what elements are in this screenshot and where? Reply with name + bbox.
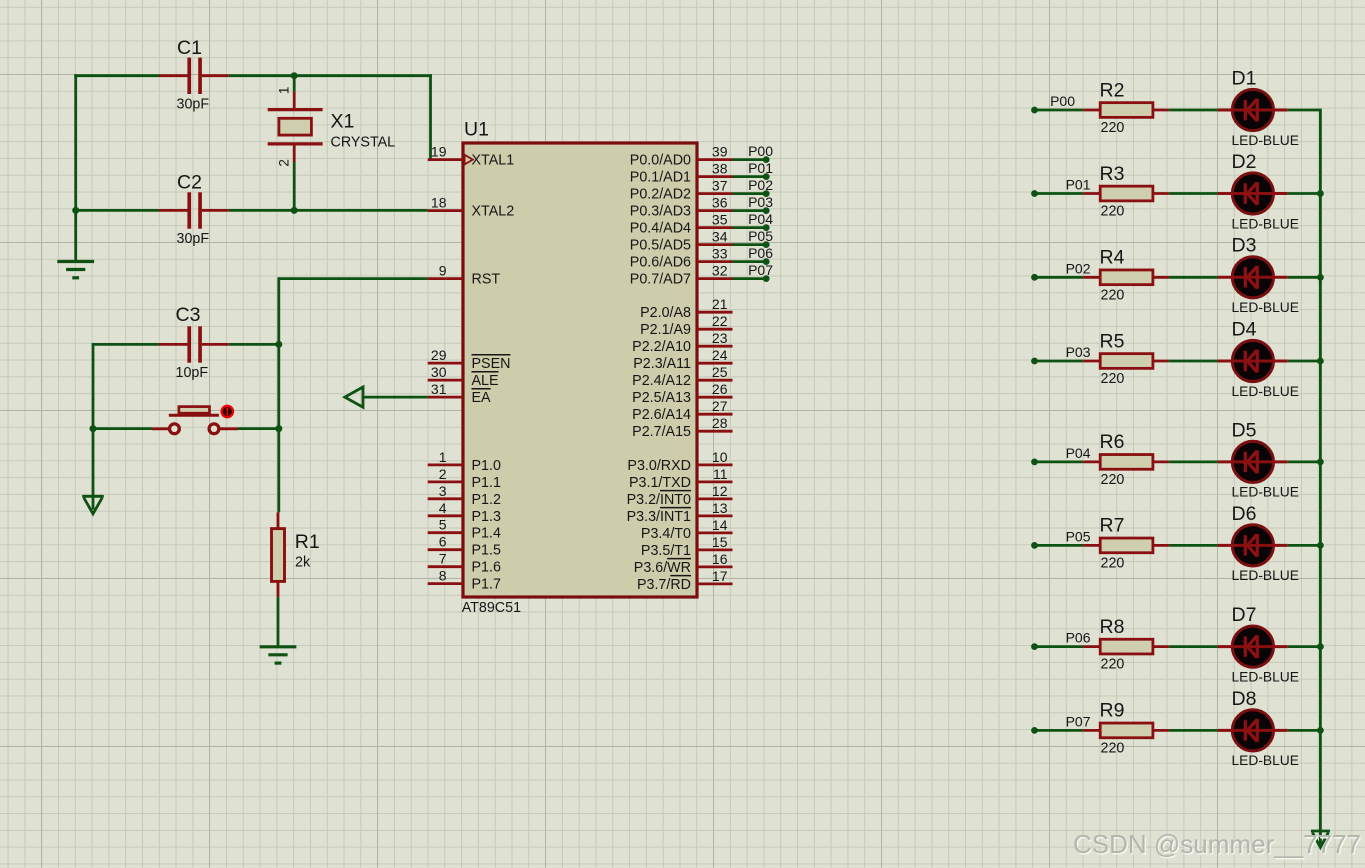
node junction bus row 4 — [1317, 358, 1324, 365]
svg-text:220: 220 — [1101, 740, 1125, 756]
wire D3 to bus — [1288, 276, 1321, 279]
node junction bus row 2 — [1317, 190, 1324, 197]
svg-text:17: 17 — [712, 568, 728, 584]
wire R2 to D1 — [1169, 109, 1218, 112]
svg-text:13: 13 — [712, 500, 728, 516]
svg-text:39: 39 — [712, 144, 728, 160]
svg-text:4: 4 — [439, 500, 447, 516]
capacitor C1 — [159, 58, 229, 94]
svg-text:LED-BLUE: LED-BLUE — [1232, 300, 1299, 315]
pin 13 (P3.3/INT1) — [627, 500, 733, 525]
pin 24 (P2.3/A11) — [633, 347, 732, 372]
svg-text:32: 32 — [712, 263, 728, 279]
wire net P06 from pin 33 — [733, 260, 767, 263]
svg-text:16: 16 — [712, 551, 728, 567]
node net P05 (LED side) — [1031, 542, 1038, 549]
ground (reset) — [260, 647, 297, 663]
svg-text:1: 1 — [439, 449, 447, 465]
svg-text:PSEN: PSEN — [472, 356, 511, 372]
node junction bus row 3 — [1317, 274, 1324, 281]
node junction bus row 8 — [1317, 727, 1324, 734]
svg-text:38: 38 — [712, 161, 728, 177]
svg-text:37: 37 — [712, 178, 728, 194]
wire left branch down to arrow — [92, 429, 95, 510]
wire P00 to R2 — [1035, 109, 1084, 112]
wire D6 to bus — [1288, 544, 1321, 547]
svg-text:P00: P00 — [1050, 93, 1075, 109]
svg-text:2: 2 — [439, 466, 447, 482]
svg-text:31: 31 — [431, 381, 447, 397]
svg-text:P01: P01 — [1066, 177, 1091, 193]
svg-text:R7: R7 — [1100, 515, 1125, 537]
pin 19 (XTAL1) — [428, 144, 514, 169]
resistor R5 — [1083, 354, 1169, 369]
svg-text:LED-BLUE: LED-BLUE — [1232, 485, 1299, 500]
svg-text:29: 29 — [431, 347, 447, 363]
svg-text:220: 220 — [1101, 555, 1125, 571]
svg-text:U1: U1 — [464, 119, 489, 141]
wire R7 to D6 — [1169, 544, 1218, 547]
pin 14 (P3.4/T0) — [641, 517, 733, 542]
wire top to XTAL1 pin — [294, 74, 432, 159]
svg-text:P0.6/AD6: P0.6/AD6 — [630, 255, 691, 271]
button interactive marker (red) — [222, 406, 233, 417]
svg-text:P2.3/A11: P2.3/A11 — [633, 356, 691, 372]
pin 34 (P0.5/AD5) — [630, 229, 733, 254]
svg-text:P1.2: P1.2 — [472, 492, 501, 508]
node terminal P02 — [763, 190, 770, 197]
wire D2 to bus — [1288, 192, 1321, 195]
svg-text:P06: P06 — [748, 245, 773, 261]
pin 18 (XTAL2) — [428, 195, 514, 220]
wire R8 to D7 — [1169, 645, 1218, 648]
svg-text:P1.7: P1.7 — [472, 577, 501, 593]
svg-text:XTAL2: XTAL2 — [472, 204, 515, 220]
svg-text:X1: X1 — [331, 111, 355, 133]
wire P02 to R4 — [1035, 276, 1084, 279]
wire R5 to D4 — [1169, 360, 1218, 363]
wire P05 to R7 — [1035, 544, 1084, 547]
node junction C2 row / left vertical — [72, 207, 79, 214]
svg-text:P2.1/A9: P2.1/A9 — [640, 322, 691, 338]
svg-text:24: 24 — [712, 347, 728, 363]
svg-text:P02: P02 — [1066, 260, 1091, 276]
svg-text:D6: D6 — [1232, 503, 1257, 525]
wire D4 to bus — [1288, 360, 1321, 363]
pin 33 (P0.6/AD6) — [630, 246, 733, 271]
wire R3 to D2 — [1169, 192, 1218, 195]
svg-text:18: 18 — [431, 195, 447, 211]
svg-text:R4: R4 — [1100, 247, 1125, 269]
pin 27 (P2.6/A14) — [632, 398, 732, 423]
resistor R3 — [1083, 186, 1169, 201]
wire C1 row top-left — [74, 74, 159, 212]
svg-text:LED-BLUE: LED-BLUE — [1232, 384, 1299, 399]
svg-text:P0.0/AD0: P0.0/AD0 — [630, 153, 691, 169]
wire D5 to bus — [1288, 460, 1321, 463]
svg-text:P3.2/INT0: P3.2/INT0 — [627, 492, 691, 508]
node net P01 (LED side) — [1031, 190, 1038, 197]
svg-text:220: 220 — [1101, 657, 1125, 673]
ground (oscillator) — [57, 262, 94, 278]
svg-text:P01: P01 — [748, 160, 773, 176]
svg-text:8: 8 — [439, 568, 447, 584]
svg-text:19: 19 — [431, 144, 447, 160]
svg-text:C2: C2 — [177, 172, 202, 194]
svg-text:RST: RST — [472, 272, 501, 288]
LED D4 — [1218, 340, 1288, 381]
svg-text:10: 10 — [712, 449, 728, 465]
svg-text:CSDN @summer__7777: CSDN @summer__7777 — [1073, 829, 1361, 859]
svg-text:220: 220 — [1101, 287, 1125, 303]
svg-text:R1: R1 — [295, 531, 320, 553]
svg-text:P04: P04 — [748, 211, 773, 227]
svg-text:P05: P05 — [1066, 528, 1091, 544]
svg-text:34: 34 — [712, 229, 728, 245]
svg-text:P2.6/A14: P2.6/A14 — [632, 407, 691, 423]
wire C2 row to XTAL2 pin — [229, 209, 428, 212]
pin 28 (P2.7/A15) — [632, 415, 732, 440]
pin 10 (P3.0/RXD) — [627, 449, 732, 474]
svg-text:220: 220 — [1101, 371, 1125, 387]
node net P06 (LED side) — [1031, 643, 1038, 650]
node junction bus row 7 — [1317, 643, 1324, 650]
svg-text:220: 220 — [1101, 472, 1125, 488]
resistor R6 — [1083, 455, 1169, 470]
pin 9 (RST) — [428, 263, 501, 288]
wire R4 to D3 — [1169, 276, 1218, 279]
svg-text:15: 15 — [712, 534, 728, 550]
pin 17 (P3.7/RD) — [637, 568, 733, 593]
svg-text:P1.3: P1.3 — [472, 509, 501, 525]
svg-text:C3: C3 — [176, 304, 201, 326]
wire button row left — [93, 427, 152, 430]
wire C3 to RST vertical — [229, 343, 279, 346]
resistor R9 — [1083, 723, 1169, 738]
svg-text:R9: R9 — [1100, 700, 1125, 722]
svg-text:P07: P07 — [748, 262, 773, 278]
resistor R2 — [1083, 103, 1169, 118]
XTAL1 clock input symbol — [465, 155, 473, 165]
svg-text:2: 2 — [276, 159, 291, 167]
pin 22 (P2.1/A9) — [640, 313, 732, 338]
svg-text:1: 1 — [276, 87, 291, 95]
svg-text:3: 3 — [439, 483, 447, 499]
svg-text:P0.7/AD7: P0.7/AD7 — [630, 272, 691, 288]
svg-text:22: 22 — [712, 313, 728, 329]
svg-text:D4: D4 — [1232, 318, 1257, 340]
svg-text:220: 220 — [1101, 204, 1125, 220]
svg-text:P2.2/A10: P2.2/A10 — [632, 339, 691, 355]
wire P04 to R6 — [1035, 460, 1084, 463]
pin 35 (P0.4/AD4) — [630, 212, 733, 237]
svg-text:30pF: 30pF — [177, 97, 210, 113]
svg-text:P0.5/AD5: P0.5/AD5 — [630, 238, 691, 254]
LED D7 — [1218, 626, 1288, 667]
svg-text:D7: D7 — [1232, 604, 1257, 626]
svg-text:23: 23 — [712, 330, 728, 346]
svg-text:CRYSTAL: CRYSTAL — [331, 135, 396, 151]
node terminal P00 — [763, 156, 770, 163]
svg-text:P2.4/A12: P2.4/A12 — [632, 373, 691, 389]
svg-text:P1.4: P1.4 — [472, 526, 501, 542]
svg-text:P3.6/WR: P3.6/WR — [634, 560, 691, 576]
svg-text:10pF: 10pF — [176, 365, 209, 381]
wire cathode bus vertical — [1319, 109, 1322, 844]
svg-text:LED-BLUE: LED-BLUE — [1232, 753, 1299, 768]
node net P00 (LED side) — [1031, 107, 1038, 114]
svg-text:220: 220 — [1101, 120, 1125, 136]
pin 21 (P2.0/A8) — [640, 296, 732, 321]
svg-text:D5: D5 — [1232, 419, 1257, 441]
svg-text:12: 12 — [712, 483, 728, 499]
pin 29 (PSEN) — [428, 347, 511, 372]
pin 1 (P1.0) — [428, 449, 501, 474]
pin 3 (P1.2) — [428, 483, 501, 508]
LED D3 — [1218, 257, 1288, 298]
node junction button right / RST vertical — [275, 425, 282, 432]
svg-text:AT89C51: AT89C51 — [462, 600, 521, 616]
pin 11 (P3.1/TXD) — [629, 466, 732, 491]
pin 2 (P1.1) — [428, 466, 501, 491]
resistor R8 — [1083, 639, 1169, 654]
wire net P07 from pin 32 — [733, 277, 767, 280]
svg-text:P3.4/T0: P3.4/T0 — [641, 526, 691, 542]
wire D7 to bus — [1288, 645, 1321, 648]
pin 12 (P3.2/INT0) — [627, 483, 733, 508]
svg-text:25: 25 — [712, 364, 728, 380]
svg-text:30pF: 30pF — [177, 231, 210, 247]
svg-text:LED-BLUE: LED-BLUE — [1232, 568, 1299, 583]
svg-text:P07: P07 — [1066, 713, 1091, 729]
svg-text:P00: P00 — [748, 143, 773, 159]
svg-text:21: 21 — [712, 296, 728, 312]
svg-text:P1.5: P1.5 — [472, 543, 501, 559]
LED D6 — [1218, 525, 1288, 566]
node junction bus row 5 — [1317, 459, 1324, 466]
LED D1 — [1218, 89, 1288, 130]
svg-text:P3.7/RD: P3.7/RD — [637, 577, 691, 593]
svg-text:R5: R5 — [1100, 330, 1125, 352]
pin 5 (P1.4) — [428, 517, 501, 542]
svg-text:P3.5/T1: P3.5/T1 — [641, 543, 691, 559]
svg-text:11: 11 — [713, 466, 728, 482]
LED D5 — [1218, 441, 1288, 482]
pin 7 (P1.6) — [428, 551, 501, 576]
node net P03 (LED side) — [1031, 358, 1038, 365]
svg-text:P05: P05 — [748, 228, 773, 244]
wire P03 to R5 — [1035, 360, 1084, 363]
node terminal P07 — [763, 275, 770, 282]
svg-text:5: 5 — [439, 517, 447, 533]
resistor R4 — [1083, 270, 1169, 285]
wire net P05 from pin 34 — [733, 243, 767, 246]
svg-text:P2.5/A13: P2.5/A13 — [632, 390, 691, 406]
svg-text:P03: P03 — [1066, 344, 1091, 360]
resistor R1 — [272, 512, 285, 597]
svg-text:28: 28 — [712, 415, 728, 431]
svg-text:D1: D1 — [1232, 67, 1257, 89]
svg-text:P1.6: P1.6 — [472, 560, 501, 576]
LED D8 — [1218, 710, 1288, 751]
pin 36 (P0.3/AD3) — [630, 195, 733, 220]
svg-text:33: 33 — [712, 246, 728, 262]
wire RST vertical mid — [277, 344, 280, 512]
svg-text:D2: D2 — [1232, 151, 1257, 173]
node terminal P05 — [763, 241, 770, 248]
svg-text:P04: P04 — [1066, 445, 1091, 461]
resistor R7 — [1083, 538, 1169, 553]
svg-text:P3.1/TXD: P3.1/TXD — [629, 475, 691, 491]
pin 16 (P3.6/WR) — [634, 551, 733, 576]
wire net P03 from pin 36 — [733, 209, 767, 212]
wire button right to RST vertical — [238, 427, 279, 430]
svg-text:C1: C1 — [177, 37, 202, 59]
wire RST pin to reset net — [279, 277, 428, 344]
svg-text:P0.1/AD1: P0.1/AD1 — [630, 170, 691, 186]
node junction crystal pin 2 / C2 row — [291, 207, 298, 214]
pin 23 (P2.2/A10) — [632, 330, 732, 355]
svg-text:26: 26 — [712, 381, 728, 397]
EA input arrow — [345, 387, 428, 407]
svg-text:P1.0: P1.0 — [472, 458, 501, 474]
pin 6 (P1.5) — [428, 534, 501, 559]
pin 15 (P3.5/T1) — [641, 534, 733, 559]
svg-text:6: 6 — [439, 534, 447, 550]
svg-text:35: 35 — [712, 212, 728, 228]
node terminal P01 — [763, 173, 770, 180]
wire net P00 from pin 39 — [733, 158, 767, 161]
svg-text:R8: R8 — [1100, 616, 1125, 638]
svg-text:D3: D3 — [1232, 235, 1257, 257]
pin 38 (P0.1/AD1) — [630, 161, 733, 186]
wire net P02 from pin 37 — [733, 192, 767, 195]
pin 25 (P2.4/A12) — [632, 364, 732, 389]
pin 4 (P1.3) — [428, 500, 501, 525]
node junction bus row 6 — [1317, 542, 1324, 549]
node terminal P06 — [763, 258, 770, 265]
wire left vertical to ground — [74, 210, 77, 261]
svg-text:P0.2/AD2: P0.2/AD2 — [630, 187, 691, 203]
crystal X1 — [268, 76, 323, 211]
svg-text:EA: EA — [472, 390, 492, 406]
node terminal P03 — [763, 207, 770, 214]
ground arrow (down, left) — [82, 496, 104, 514]
wire D1 to bus — [1288, 109, 1321, 112]
LED D2 — [1218, 173, 1288, 214]
svg-text:P03: P03 — [748, 194, 773, 210]
svg-text:27: 27 — [712, 398, 728, 414]
node net P07 (LED side) — [1031, 727, 1038, 734]
pin 30 (ALE) — [428, 364, 499, 389]
svg-text:7: 7 — [439, 551, 447, 567]
svg-text:P3.0/RXD: P3.0/RXD — [627, 458, 691, 474]
op-amp U1 AT89C51 microcontroller body — [463, 143, 697, 597]
svg-text:R2: R2 — [1100, 79, 1125, 101]
svg-text:30: 30 — [431, 364, 447, 380]
wire C1 to crystal node — [229, 74, 295, 77]
wire P01 to R3 — [1035, 192, 1084, 195]
pin 32 (P0.7/AD7) — [630, 263, 733, 288]
ground arrow (bus bottom) — [1311, 831, 1330, 847]
svg-text:36: 36 — [712, 195, 728, 211]
node net P04 (LED side) — [1031, 459, 1038, 466]
capacitor C2 — [76, 192, 229, 228]
svg-text:P0.3/AD3: P0.3/AD3 — [630, 204, 691, 220]
node junction C3 / RST vertical — [275, 341, 282, 348]
svg-text:P1.1: P1.1 — [472, 475, 501, 491]
svg-text:XTAL1: XTAL1 — [472, 153, 515, 169]
wire P07 to R9 — [1035, 729, 1084, 732]
svg-text:P06: P06 — [1066, 630, 1091, 646]
wire net P01 from pin 38 — [733, 175, 767, 178]
pin 31 (EA) — [428, 381, 491, 406]
pin 26 (P2.5/A13) — [632, 381, 732, 406]
wire net P04 from pin 35 — [733, 226, 767, 229]
capacitor C3 — [93, 326, 229, 362]
wire P06 to R8 — [1035, 645, 1084, 648]
svg-text:P3.3/INT1: P3.3/INT1 — [627, 509, 691, 525]
svg-text:9: 9 — [439, 263, 447, 279]
svg-text:LED-BLUE: LED-BLUE — [1232, 669, 1299, 684]
svg-text:R3: R3 — [1100, 163, 1125, 185]
node junction top wire / crystal pin 1 — [291, 72, 298, 79]
pin 39 (P0.0/AD0) — [630, 144, 733, 169]
svg-text:14: 14 — [712, 517, 728, 533]
svg-text:D8: D8 — [1232, 688, 1257, 710]
wire R1 to ground — [277, 597, 280, 647]
svg-text:2k: 2k — [295, 554, 311, 570]
svg-text:P02: P02 — [748, 177, 773, 193]
wire R9 to D8 — [1169, 729, 1218, 732]
pin 37 (P0.2/AD2) — [630, 178, 733, 203]
node terminal P04 — [763, 224, 770, 231]
wire D8 to bus — [1288, 729, 1321, 732]
svg-text:LED-BLUE: LED-BLUE — [1232, 216, 1299, 231]
svg-text:P2.7/A15: P2.7/A15 — [632, 424, 691, 440]
svg-text:ALE: ALE — [472, 373, 499, 389]
node net P02 (LED side) — [1031, 274, 1038, 281]
svg-text:P0.4/AD4: P0.4/AD4 — [630, 221, 691, 237]
svg-text:R6: R6 — [1100, 431, 1125, 453]
wire R6 to D5 — [1169, 460, 1218, 463]
svg-text:P2.0/A8: P2.0/A8 — [640, 305, 691, 321]
svg-text:LED-BLUE: LED-BLUE — [1232, 133, 1299, 148]
pin 8 (P1.7) — [428, 568, 501, 593]
node junction button left — [90, 425, 97, 432]
wire C3 left leg down — [92, 343, 95, 429]
push button switch — [152, 407, 238, 434]
